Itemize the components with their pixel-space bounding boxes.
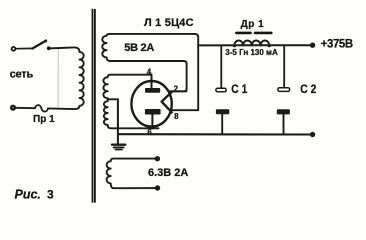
svg-text:4: 4 (147, 67, 152, 76)
svg-text:6: 6 (147, 128, 152, 137)
svg-text:Др 1: Др 1 (241, 19, 265, 30)
svg-text:2: 2 (174, 85, 179, 94)
svg-text:сеть: сеть (10, 69, 34, 81)
svg-text:+375В: +375В (321, 36, 354, 51)
svg-text:Л 1 5Ц4С: Л 1 5Ц4С (144, 17, 194, 29)
svg-text:8: 8 (174, 112, 179, 121)
svg-text:3-5 Гн 130 мА: 3-5 Гн 130 мА (225, 48, 278, 57)
svg-text:3: 3 (47, 188, 54, 202)
svg-text:6.3В 2А: 6.3В 2А (148, 167, 188, 179)
svg-text:Пр 1: Пр 1 (33, 114, 55, 125)
svg-text:C 1: C 1 (231, 83, 247, 96)
svg-text:5В 2А: 5В 2А (124, 42, 154, 54)
svg-text:C 2: C 2 (300, 83, 316, 96)
svg-text:Рис.: Рис. (15, 188, 41, 202)
